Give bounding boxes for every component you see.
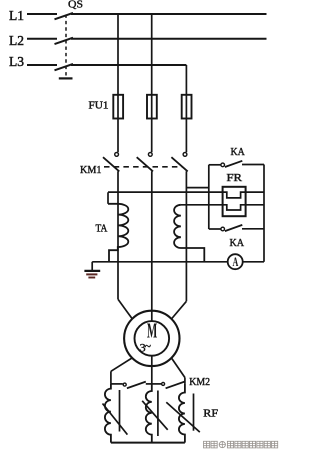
resistor RF element 2 [142,384,168,443]
svg-text:KA: KA [231,146,245,158]
svg-text:L2: L2 [9,33,24,48]
wire L1 right segment [71,13,267,15]
wire column 3 jumper to control branch [186,187,208,189]
wire control branch right vertical [263,165,265,262]
wire column 2 (fuse to KM1) [151,119,153,153]
ground [84,271,100,278]
motor M1 [124,311,179,366]
wire motor feed diagonal left [118,299,132,319]
transformer TA winding 2 [174,205,204,262]
wire column 3 upper (L3 corner to fuse) [185,65,187,95]
switch QS blade pole 2 [55,38,74,44]
wire column 1 (KM1 to motor) [117,171,119,299]
wire rotor middle stub [151,356,153,384]
relay contact KA upper [209,161,264,167]
wire L1 left segment [27,13,57,15]
svg-text:L3: L3 [9,54,24,69]
svg-text:KA: KA [230,237,245,249]
ammeter A [228,254,264,269]
wire rotor diagonal left [111,358,132,371]
contactor KM1 contact 2 [137,153,153,172]
svg-text:QS: QS [68,0,83,10]
wire TA secondary 1 top lead [107,192,109,204]
switch QS blade pole 3 [55,64,74,70]
svg-text:KM2: KM2 [189,376,210,388]
contactor KM1 linkage dashed [104,166,182,168]
fuse FU1 pole 1 [113,95,123,119]
wire A TA secondary to FR heater top [108,192,264,198]
contactor KM2 contact 1 [111,382,152,389]
svg-text:L1: L1 [9,8,24,23]
resistor RF element 3 [166,384,200,443]
wire motor feed diagonal right [171,301,186,319]
wire column 1 upper (L1 to fuse) [117,14,119,95]
svg-text:RF: RF [203,408,218,420]
wire column 3 (fuse to KM1) [185,119,187,153]
svg-text:TA: TA [96,222,108,234]
svg-text:~: ~ [145,341,151,353]
fuse FU1 pole 3 [182,95,192,119]
contactor KM1 contact 1 [103,153,119,172]
switch QS linkage and label [59,0,83,78]
wire column 1 (fuse to KM1) [117,119,119,153]
wire control branch left vertical [208,165,210,229]
svg-text:FU1: FU1 [89,100,109,112]
wire motor feed middle stub [151,311,153,321]
wire rotor diagonal right [171,358,185,378]
fuse FU1 pole 2 [147,95,157,119]
watermark [204,441,278,448]
node L1 [9,8,267,23]
wire column 2 upper (L1 to fuse) [151,14,153,95]
wire L2 left segment [27,38,57,40]
wire L2 right segment [71,38,267,40]
resistor RF element 1 [103,384,128,443]
contactor KM1 contact 3 [171,153,187,172]
node L3 [9,54,186,70]
wire column 2 (KM1 to motor) [151,171,153,310]
switch QS blade pole 1 [55,13,74,19]
thermal relay FR heater box [223,187,246,216]
wire L3 right segment turning down to column 3 [71,64,186,66]
node L2 [9,33,267,48]
svg-text:A: A [233,254,239,269]
wire L3 left segment [27,64,57,66]
wire rotor branch 1 [110,371,112,384]
transformer TA winding 1 [108,204,128,262]
wire column 3 (KM1 to motor) [185,171,187,301]
svg-text:FR: FR [227,172,243,184]
contactor KM2 contact 2 [152,382,185,389]
wire rotor star bus [111,442,185,444]
relay contact KA lower [209,225,264,231]
svg-text:KM1: KM1 [80,164,102,176]
svg-text:M: M [147,319,157,343]
wire ground drop [91,262,93,270]
wire B secondary common to ammeter [92,261,228,263]
wire TA winding 2 to FR heater bottom [181,205,264,210]
wire rotor branch 3 [184,378,186,384]
